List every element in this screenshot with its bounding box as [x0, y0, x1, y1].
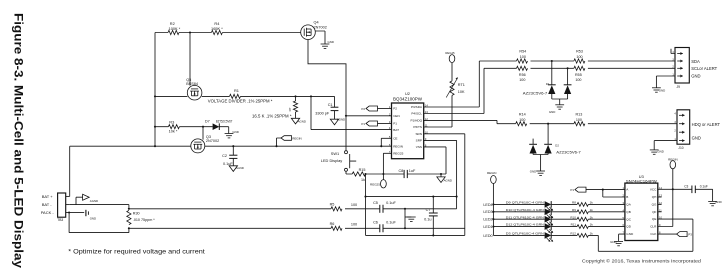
AGND below R7 — [291, 118, 299, 124]
svg-text:16.5 K .1% 25PPM *: 16.5 K .1% 25PPM * — [252, 113, 292, 118]
resistor R7 16.5K — [295, 96, 297, 118]
P1 net flag — [366, 121, 378, 126]
node AGND mid — [364, 196, 366, 198]
svg-text:10k *: 10k * — [169, 129, 178, 134]
node left rail R3 — [154, 126, 156, 128]
wire P1/HDQ row — [424, 120, 516, 123]
ground at C3 — [708, 200, 717, 202]
wire CEN to U2 — [346, 115, 392, 117]
LED D9 QTLP610C-4 — [545, 201, 552, 208]
svg-text:R7: R7 — [288, 107, 292, 111]
svg-text:BZT52C5V6T: BZT52C5V6T — [216, 120, 233, 124]
QF stub — [658, 211, 662, 213]
svg-text:C7: C7 — [426, 208, 431, 212]
resistor R8 1k — [577, 203, 588, 207]
wire SW1 to R15 — [346, 171, 352, 174]
svg-text:REGIN: REGIN — [487, 171, 497, 175]
ground at D2 — [536, 170, 545, 172]
ground at Q4 — [321, 43, 330, 45]
node REGIN flag tap — [275, 145, 277, 147]
node SRP corner — [456, 196, 458, 198]
svg-text:GND: GND — [657, 149, 663, 153]
P3 net flag — [677, 232, 688, 237]
resistor R54 100 — [517, 59, 528, 63]
svg-text:LED1: LED1 — [483, 225, 492, 229]
resistor R2 — [168, 30, 179, 34]
svg-text:QD: QD — [626, 225, 631, 229]
QG stub — [658, 203, 662, 205]
resistor R30 sense — [127, 210, 131, 224]
svg-text:100: 100 — [576, 55, 582, 59]
node SDA zener tap — [551, 60, 553, 62]
svg-text:CEN: CEN — [393, 114, 400, 118]
transistor Q3 — [191, 139, 205, 153]
svg-text:LED Display: LED Display — [321, 158, 342, 163]
wire LED1 row right — [588, 226, 625, 228]
wire SRP row — [129, 208, 457, 210]
svg-text:QF: QF — [652, 210, 656, 214]
svg-text:Copyright © 2016, Texas Instru: Copyright © 2016, Texas Instruments Inco… — [582, 258, 701, 265]
wire Q3 gate stub — [202, 127, 204, 140]
svg-text:1k: 1k — [590, 201, 594, 205]
svg-text:GND: GND — [715, 200, 721, 204]
wire A pin — [603, 189, 625, 191]
svg-text:R3: R3 — [169, 119, 174, 124]
svg-text:P1: P1 — [361, 122, 365, 126]
svg-text:R1: R1 — [234, 88, 239, 93]
wire LED2 mid — [552, 218, 578, 220]
wire VSS — [424, 147, 446, 174]
resistor R5 100 — [331, 207, 342, 211]
node C7 bottom — [432, 234, 434, 236]
svg-text:100: 100 — [519, 78, 525, 82]
svg-text:R8: R8 — [572, 201, 576, 205]
svg-text:AZ23C5V6-7: AZ23C5V6-7 — [523, 91, 548, 95]
svg-text:100: 100 — [351, 203, 357, 207]
QH stub — [658, 196, 662, 198]
LED D11 QTLP610C-4 — [545, 216, 552, 223]
svg-text:B: B — [626, 195, 628, 199]
svg-text:D7: D7 — [205, 120, 210, 124]
svg-text:VOLTAGE DIVIDER .1% 25PPM *: VOLTAGE DIVIDER .1% 25PPM * — [208, 98, 273, 103]
svg-text:REG25: REG25 — [393, 152, 403, 156]
svg-text:BAT: BAT — [393, 128, 399, 132]
svg-text:R5: R5 — [330, 202, 335, 206]
svg-text:QE: QE — [652, 217, 656, 221]
svg-text:C8: C8 — [398, 169, 403, 173]
resistor R14 100 — [516, 122, 527, 126]
wire REG25 drop — [365, 174, 367, 235]
svg-text:AGND: AGND — [444, 179, 452, 183]
wire R15 to C8 — [366, 173, 405, 175]
REG25 pin tie — [383, 153, 391, 179]
svg-text:REG25: REG25 — [445, 51, 455, 55]
node D7 anode — [202, 126, 204, 128]
ground at D7 — [225, 133, 234, 135]
wire BAT+ REGIN row — [70, 145, 392, 147]
wire LED1 mid — [552, 226, 578, 228]
node BAT divider tap — [310, 95, 312, 97]
svg-text:R13: R13 — [576, 113, 583, 117]
wire C8 to VSS drop — [407, 173, 446, 175]
svg-text:D1: D1 — [546, 82, 550, 86]
svg-text:AGND: AGND — [236, 166, 244, 170]
svg-text:C2: C2 — [222, 154, 227, 158]
wire SRN row — [129, 227, 465, 229]
resistor R10 1k — [577, 217, 588, 221]
svg-text:0.1uF: 0.1uF — [386, 201, 396, 205]
svg-text:P2: P2 — [393, 107, 397, 111]
wire CLR tie to VCC — [658, 189, 673, 226]
wire J9 ground — [656, 76, 675, 88]
node LED bus LED1 — [492, 226, 494, 228]
capacitor C8 1uF — [403, 170, 405, 178]
wire SCL row — [484, 67, 675, 69]
P2 net flag — [366, 106, 378, 111]
svg-text:1k: 1k — [590, 232, 594, 236]
svg-text:SDA: SDA — [691, 59, 700, 64]
svg-text:LED2: LED2 — [483, 218, 492, 222]
svg-text:GND: GND — [659, 89, 665, 93]
svg-text:U2: U2 — [405, 91, 410, 96]
svg-text:1k: 1k — [590, 215, 594, 219]
wire SRN — [424, 134, 465, 236]
svg-text:AGND: AGND — [337, 118, 345, 122]
svg-text:P3: P3 — [688, 233, 692, 237]
wire CLK to P3 flag — [658, 233, 677, 235]
wire BAT- row — [70, 204, 129, 206]
svg-text:P6/TS: P6/TS — [413, 125, 422, 129]
svg-text:C5: C5 — [373, 201, 378, 205]
wire divider to BAT pin — [311, 96, 392, 129]
svg-text:R54: R54 — [519, 49, 526, 53]
svg-text:R56: R56 — [519, 73, 526, 77]
node R30 top — [128, 208, 130, 210]
svg-text:CE: CE — [393, 137, 397, 141]
node CE-REGIN junction — [380, 145, 382, 147]
wire LED2 row right — [588, 218, 625, 220]
svg-text:1k: 1k — [590, 208, 594, 212]
switch SW1 — [345, 151, 348, 154]
svg-text:P1: P1 — [570, 188, 574, 192]
resistor R12 1k — [577, 234, 588, 238]
svg-text:0.1uF: 0.1uF — [700, 185, 708, 189]
wire LED1 row left — [493, 226, 544, 228]
wire SDA row — [479, 60, 675, 62]
svg-text:AGND: AGND — [298, 119, 306, 123]
node R7 top — [294, 95, 296, 97]
GND symbol at PACK- — [69, 212, 84, 214]
svg-text:GND: GND — [549, 110, 555, 114]
svg-text:D9 QTLP610C-4 GRN: D9 QTLP610C-4 GRN — [506, 201, 544, 205]
node VCC junction — [672, 188, 674, 190]
svg-text:SRN: SRN — [415, 132, 422, 136]
svg-text:P1/HDQ: P1/HDQ — [410, 119, 422, 123]
svg-text:D3 QTLP610C-4 GRN: D3 QTLP610C-4 GRN — [506, 232, 544, 236]
svg-text:QH: QH — [652, 195, 657, 199]
P1 net flag at U3 — [575, 187, 586, 192]
svg-text:0.1u: 0.1u — [424, 218, 431, 222]
svg-text:C3: C3 — [684, 185, 688, 189]
svg-text:BQ34Z100PW: BQ34Z100PW — [393, 97, 422, 102]
svg-text:CLR: CLR — [650, 225, 657, 229]
node HDQ zener tap — [547, 123, 549, 125]
ground at J9 — [652, 87, 661, 89]
capacitor C5 0.1uF — [379, 205, 381, 213]
svg-text:SW1: SW1 — [331, 151, 339, 156]
svg-text:BAT +: BAT + — [42, 194, 54, 199]
svg-text:GND: GND — [691, 74, 700, 79]
svg-text:100: 100 — [576, 118, 582, 122]
svg-text:AZ23C5V6-7: AZ23C5V6-7 — [556, 151, 581, 155]
svg-text:TB3: TB3 — [57, 218, 63, 222]
svg-text:REGIN: REGIN — [292, 137, 302, 141]
wire BAT- jog — [128, 205, 130, 209]
REG25 net flag at RT1 — [451, 63, 453, 81]
node LED bus LED2 — [492, 218, 494, 220]
capacitor C2 0.1uF — [232, 146, 234, 166]
svg-text:1k: 1k — [590, 223, 594, 227]
svg-text:R30: R30 — [133, 212, 140, 216]
svg-text:Figure 8-3. Multi-Cell and 5-L: Figure 8-3. Multi-Cell and 5-LED Display — [12, 13, 26, 268]
AGND below C1 — [330, 119, 338, 125]
svg-text:QC: QC — [626, 217, 631, 221]
svg-text:2N7002: 2N7002 — [314, 25, 327, 29]
svg-text:100: 100 — [520, 55, 526, 59]
wire U3 GND pin — [619, 234, 625, 241]
svg-text:AGND: AGND — [90, 199, 98, 203]
AGND flag at BAT- — [76, 197, 83, 204]
wire LED3 row right — [588, 211, 625, 213]
LED D12 QTLP610C-4 — [545, 223, 552, 230]
transistor Q5 — [187, 85, 202, 100]
diode D7 BZT52C5V6T — [213, 123, 220, 130]
node LED bus LED3 — [492, 211, 494, 213]
svg-text:D12 QTLP610C-4 GRN: D12 QTLP610C-4 GRN — [506, 223, 544, 227]
ground at U3 — [614, 240, 623, 242]
LED D10 QTLP610C-4 — [545, 209, 552, 216]
svg-text:1k: 1k — [361, 178, 365, 182]
svg-text:Q4: Q4 — [314, 21, 319, 25]
svg-text:D10 QTLP610C-4 GRN: D10 QTLP610C-4 GRN — [506, 208, 544, 212]
svg-text:P2: P2 — [361, 107, 365, 111]
resistor R4 — [211, 30, 222, 34]
svg-text:R10: R10 — [570, 215, 576, 219]
wire divider row — [155, 95, 335, 97]
wire LED0 row left — [493, 234, 544, 236]
svg-text:BAT -: BAT - — [42, 202, 53, 207]
svg-text:D11 QTLP610C-4 GRN: D11 QTLP610C-4 GRN — [506, 215, 544, 219]
svg-text:R14: R14 — [519, 113, 526, 117]
svg-text:GND: GND — [692, 136, 701, 141]
wire top rail — [155, 32, 301, 34]
svg-text:GND: GND — [328, 40, 334, 44]
svg-text:GND: GND — [232, 130, 238, 134]
svg-text:VSS: VSS — [416, 145, 422, 149]
svg-text:PACK -: PACK - — [41, 210, 55, 215]
wire LED4 mid — [552, 203, 578, 205]
svg-text:GND: GND — [626, 232, 634, 236]
capacitor C1 3300pF — [334, 96, 336, 119]
svg-text:C6: C6 — [373, 221, 378, 225]
wire LED4 row right — [588, 203, 625, 205]
wire R3 row — [155, 127, 229, 134]
capacitor C6 0.1uF — [379, 224, 381, 232]
svg-text:SCLor ALERT: SCLor ALERT — [691, 66, 717, 71]
svg-text:J10: J10 — [678, 146, 683, 150]
node C7 top — [432, 196, 434, 198]
wire LED supply bus — [492, 184, 494, 236]
svg-text:R15: R15 — [359, 168, 366, 172]
resistor R1 — [230, 94, 241, 98]
svg-text:GND: GND — [610, 240, 616, 244]
wire P4/SCL to pullups — [424, 68, 484, 113]
svg-text:165K *: 165K * — [211, 26, 223, 31]
node REG25 junction — [382, 173, 384, 175]
svg-text:.010 75ppm *: .010 75ppm * — [133, 218, 156, 222]
svg-text:REG25: REG25 — [370, 182, 380, 186]
wire P3/SDA to pullups — [424, 61, 480, 107]
svg-text:0.1uF: 0.1uF — [386, 221, 396, 225]
svg-text:QB: QB — [626, 210, 630, 214]
LED D3 QTLP610C-4 — [545, 232, 552, 239]
node R2-R4 junction — [189, 31, 191, 33]
wire P6/TS to RT1 — [424, 95, 452, 127]
wire AGND mid row — [366, 196, 457, 198]
capacitor C7 0.1uF — [432, 197, 434, 236]
REGIN net flag at U3 — [672, 169, 674, 189]
wire left rail vertical — [154, 33, 156, 147]
transistor Q4 — [301, 25, 316, 40]
svg-text:100: 100 — [351, 223, 357, 227]
connector TB3 — [58, 193, 66, 217]
svg-text:J9: J9 — [677, 85, 681, 89]
node CEN tap — [345, 115, 347, 117]
svg-text:P4/SCL: P4/SCL — [411, 112, 422, 116]
svg-text:SRP: SRP — [416, 139, 422, 143]
node C2 tap — [232, 145, 234, 147]
svg-text:R55: R55 — [575, 73, 582, 77]
resistor R13 100 — [574, 122, 585, 126]
svg-text:100K *: 100K * — [169, 26, 181, 31]
node SCL zener tap — [567, 67, 569, 69]
svg-text:P1: P1 — [393, 122, 397, 126]
svg-text:RT1: RT1 — [458, 83, 465, 87]
svg-text:LED3: LED3 — [483, 210, 492, 214]
svg-text:QG: QG — [652, 203, 657, 207]
wire BAT+ up — [69, 146, 71, 196]
resistor R6 100 — [331, 226, 342, 230]
svg-text:1uF: 1uF — [409, 169, 416, 173]
thermistor RT1 10K — [450, 81, 454, 95]
svg-text:REGIN: REGIN — [393, 144, 403, 148]
wire LED3 mid — [552, 211, 578, 213]
connector J10 — [677, 110, 690, 144]
svg-text:R11: R11 — [571, 223, 577, 227]
resistor R9 1k — [577, 210, 588, 214]
dual zener D2 AZ23C5V6-7 — [547, 124, 549, 145]
svg-text:VCC: VCC — [650, 187, 657, 191]
resistor R55 100 — [574, 66, 585, 70]
node R30 bottom — [128, 227, 130, 229]
wire Q5 gate — [189, 33, 191, 86]
svg-text:R6: R6 — [330, 222, 335, 226]
wire SRP — [424, 140, 457, 208]
wire B tie — [603, 190, 625, 197]
AGND below C2 — [229, 166, 237, 172]
wire bottom return row — [366, 234, 465, 236]
resistor R15 1k — [352, 172, 365, 176]
svg-text:R12: R12 — [570, 232, 576, 236]
wire LED0 mid — [552, 234, 578, 236]
svg-text:R9: R9 — [572, 208, 576, 212]
wire LED3 row left — [493, 211, 544, 213]
node LED bus LED4 — [492, 203, 494, 205]
wire LED4 row left — [493, 203, 544, 205]
connector J9 — [675, 48, 689, 84]
svg-text:SN74HC164PW: SN74HC164PW — [626, 179, 657, 184]
dual zener D1 AZ23C5V6-7 — [551, 61, 553, 85]
ground at D1 — [555, 104, 564, 106]
AGND at VSS — [440, 174, 442, 177]
ground at J10 — [650, 149, 659, 151]
svg-text:P3/SDA: P3/SDA — [411, 105, 423, 109]
svg-text:LED4: LED4 — [483, 203, 492, 207]
resistor R11 1k — [577, 225, 588, 229]
svg-text:BSS84: BSS84 — [186, 82, 198, 86]
wire Q4 source to ground — [315, 31, 325, 44]
wire LED0 row right — [588, 219, 693, 251]
svg-text:3300 pF: 3300 pF — [315, 112, 330, 116]
svg-text:HDQ or ALERT: HDQ or ALERT — [692, 122, 721, 127]
resistor R3 10k — [168, 125, 179, 129]
node A-B tie — [602, 189, 604, 191]
svg-text:R53: R53 — [576, 49, 583, 53]
IC U2 BQ34Z100PW — [392, 103, 424, 159]
node REG25 drop top — [364, 173, 366, 175]
wire CE tie — [381, 138, 391, 146]
REG25 net flag at C8 — [381, 180, 387, 188]
svg-text:100: 100 — [575, 78, 581, 82]
svg-text:10K: 10K — [458, 90, 465, 94]
ground at C5 C6 — [405, 216, 411, 218]
wire LED2 row left — [493, 218, 544, 220]
svg-text:CLK: CLK — [650, 232, 657, 236]
resistor R53 100 — [574, 59, 585, 63]
svg-text:D2: D2 — [555, 143, 559, 147]
capacitor C3 0.1uF — [673, 189, 713, 201]
svg-text:LED0: LED0 — [483, 234, 492, 238]
svg-text:GND: GND — [530, 170, 536, 174]
REGIN net flag — [277, 138, 282, 146]
resistor R56 100 — [517, 66, 528, 70]
node left rail bottom — [154, 145, 156, 147]
svg-text:REGIN: REGIN — [668, 157, 678, 161]
wire HDQ pullup row — [530, 123, 677, 125]
wire PACK- down — [69, 213, 129, 233]
svg-text:2N7002: 2N7002 — [206, 139, 219, 143]
node left rail divider — [154, 95, 156, 97]
wire Q4 drain — [308, 40, 346, 151]
wire J10 ground — [654, 141, 677, 150]
wire C5-C6 ground tie — [404, 209, 406, 229]
wire VCC to REGIN — [658, 188, 673, 190]
svg-text:GND: GND — [90, 216, 96, 220]
svg-text:* Optimize for required voltag: * Optimize for required voltage and curr… — [68, 249, 205, 256]
IC U3 SN74HC164PW — [625, 183, 658, 240]
svg-text:100: 100 — [519, 118, 525, 122]
svg-text:C1: C1 — [328, 103, 333, 107]
